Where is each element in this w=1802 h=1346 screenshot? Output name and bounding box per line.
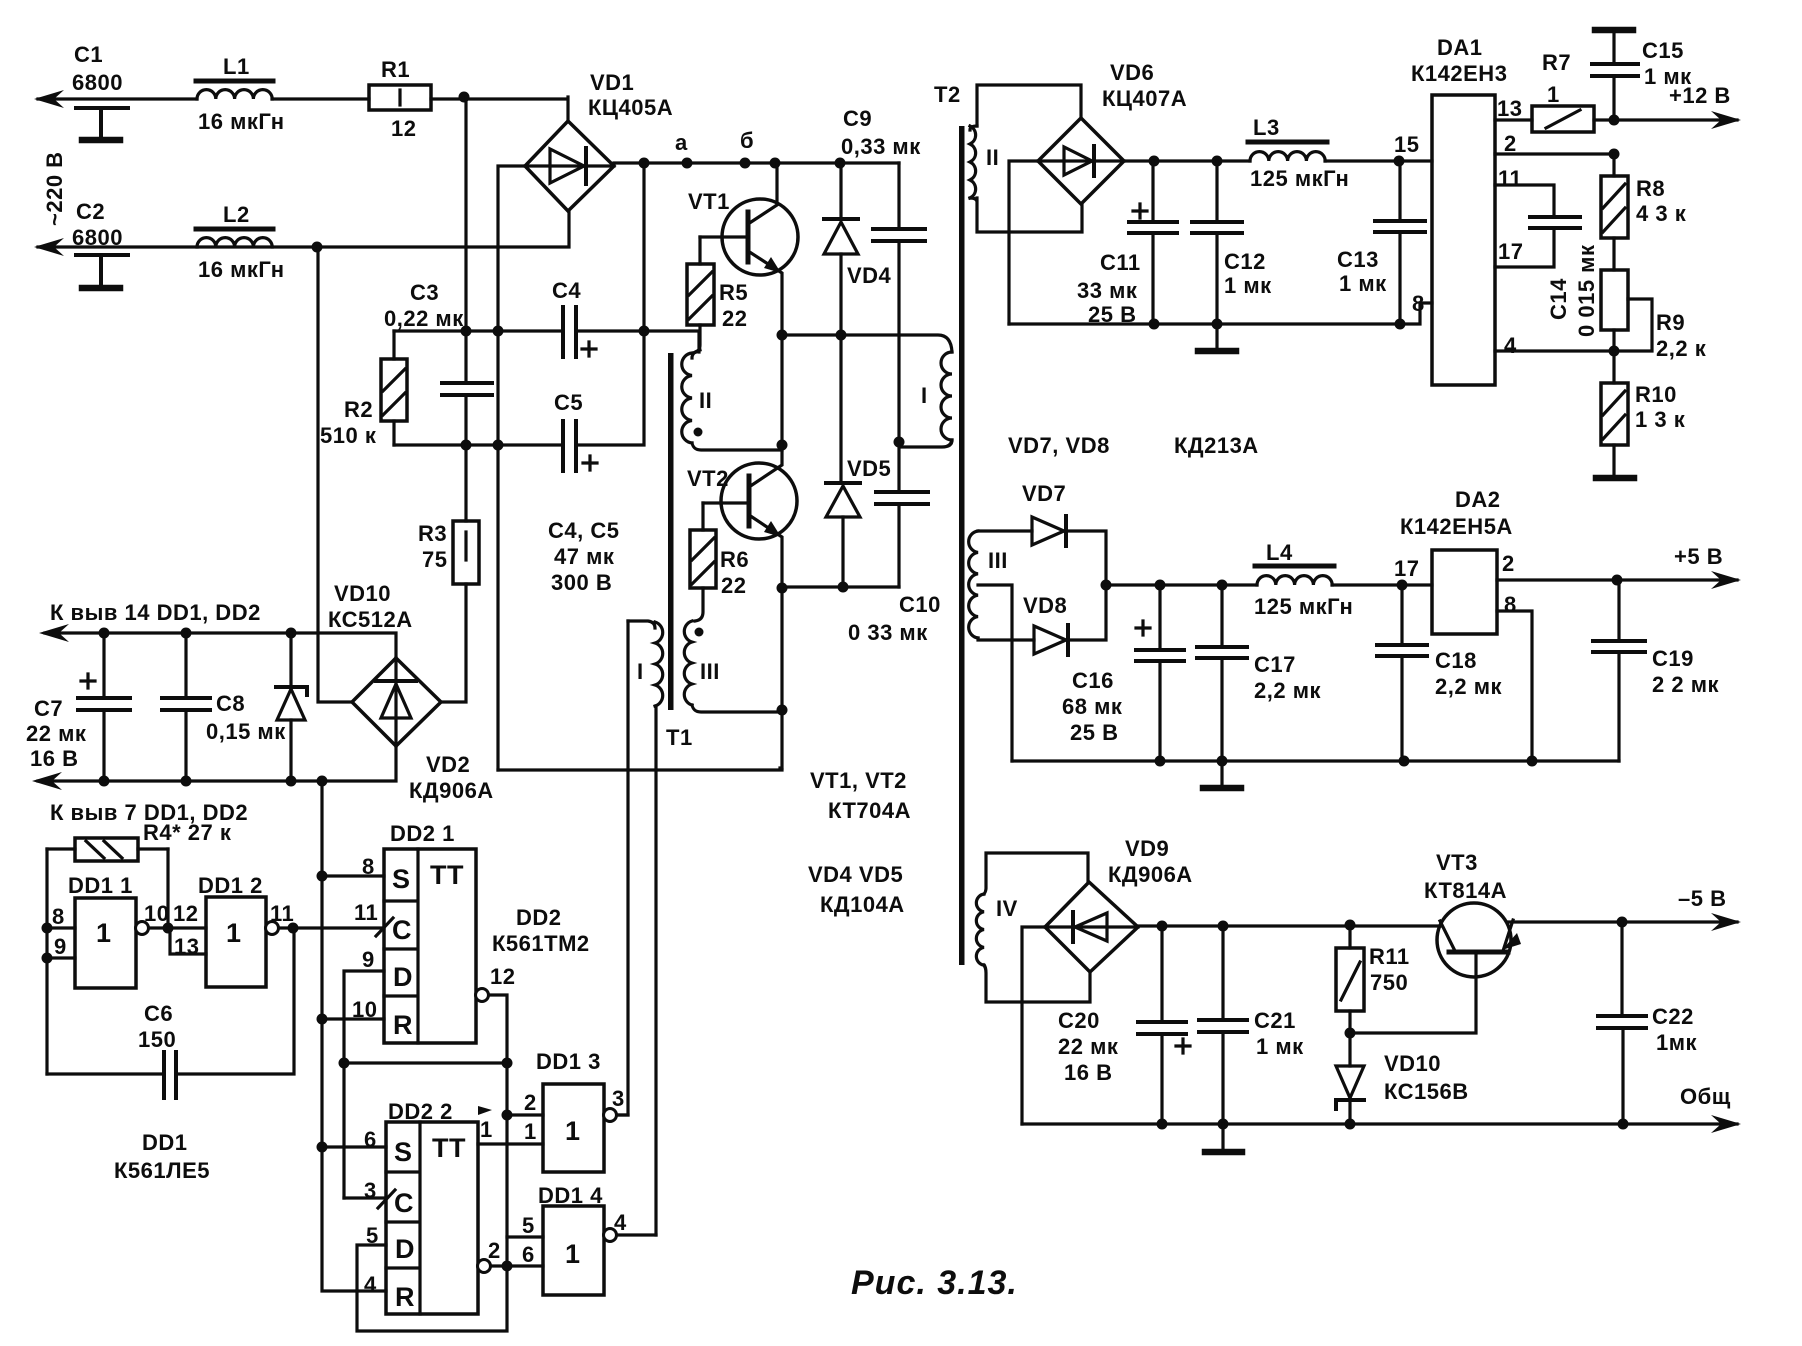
capacitor C9 [897,163,900,442]
svg-text:DD1 2: DD1 2 [198,873,263,898]
resistor R2 [320,331,407,448]
svg-text:L2: L2 [223,202,250,227]
svg-text:2: 2 [524,1090,537,1115]
svg-text:R5: R5 [719,280,748,305]
wire: DD2.2 pin1 output [478,1142,543,1145]
svg-text:22: 22 [722,306,747,331]
wire: pin2 [1495,152,1614,155]
svg-text:~220 В: ~220 В [42,151,67,226]
svg-text:+5 В: +5 В [1674,544,1723,569]
svg-text:12: 12 [490,964,515,989]
capacitor C1 [72,42,128,140]
svg-text:VD2: VD2 [426,752,470,777]
svg-text:DA2: DA2 [1455,487,1501,512]
svg-text:TT: TT [432,1133,466,1163]
transformer T2 core [959,126,965,965]
svg-text:22 мк: 22 мк [26,721,87,746]
transformer T2 winding III [969,531,1008,638]
svg-text:VD5: VD5 [847,456,891,481]
node: VT1 collector branch [770,158,781,169]
wire: DA1 bottom rail y=324 [1009,303,1432,324]
capacitor C14 [1495,185,1599,337]
arrow: line 2 to ~220V [34,238,64,256]
svg-text:8: 8 [1504,592,1517,617]
svg-text:DD2: DD2 [516,905,562,930]
svg-text:К142ЕН5А: К142ЕН5А [1400,514,1513,539]
svg-text:6800: 6800 [72,70,123,95]
svg-text:1: 1 [524,1119,537,1144]
resistor R3 [418,445,479,702]
svg-text:1: 1 [480,1117,493,1142]
wire: DA2 pin8 to rail [1497,611,1532,761]
wire: common rail К выв 7 [38,746,396,781]
svg-text:III: III [988,548,1008,573]
svg-text:9: 9 [362,947,375,972]
node b [740,158,751,169]
node: T1-III bottom junction [777,705,788,716]
svg-text:1: 1 [565,1116,581,1146]
svg-text:2 2 мк: 2 2 мк [1652,672,1719,697]
resistor R7 [1495,50,1737,132]
svg-text:DA1: DA1 [1437,35,1483,60]
wire: +5V bottom rail y=761 [1012,759,1619,762]
wire: +5V raw rail y=585 [1106,583,1432,586]
svg-text:К выв 14 DD1, DD2: К выв 14 DD1, DD2 [50,600,261,625]
wire: VD2 left vertex to L2 [318,247,352,702]
svg-text:1 мк: 1 мк [1256,1034,1304,1059]
svg-text:C1: C1 [74,42,103,67]
inductor L2 [196,202,285,282]
svg-text:КЦ405А: КЦ405А [588,95,673,120]
svg-text:VD10: VD10 [334,581,391,606]
svg-text:VD9: VD9 [1125,836,1169,861]
svg-text:III: III [700,659,720,684]
svg-text:T2: T2 [934,82,961,107]
capacitor C12 [1192,161,1272,324]
svg-text:1: 1 [1547,82,1560,107]
svg-text:R3: R3 [418,521,447,546]
bridge rectifier VD9 [1045,836,1193,972]
zener VD10 (KC512A) [276,581,413,781]
capacitor C2 [72,199,128,288]
gate DD1.1 [47,873,169,988]
svg-text:R10: R10 [1635,382,1677,407]
svg-text:КТ704А: КТ704А [828,798,911,823]
svg-text:25 В: 25 В [1070,720,1118,745]
wire: T1-I top to DD1.3 output [617,621,628,1115]
svg-text:C5: C5 [554,390,583,415]
node: R1 output junction [459,92,470,103]
ground below C17 [1220,761,1223,786]
svg-text:L1: L1 [223,54,250,79]
node a [682,158,693,169]
svg-text:1 мк: 1 мк [1339,271,1387,296]
transistor VT3 [1350,850,1521,1033]
resistor R1 [369,57,431,141]
capacitor C20 [1058,926,1190,1124]
svg-text:0 33 мк: 0 33 мк [848,620,928,645]
svg-text:VD8: VD8 [1023,593,1067,618]
svg-text:C18: C18 [1435,648,1477,673]
capacitor C5 [554,390,597,471]
inductor L4 [1254,540,1353,619]
svg-text:11: 11 [270,901,294,926]
svg-text:47 мк: 47 мк [554,544,615,569]
arrow: line 1 to ~220V [34,90,64,108]
capacitor C7 [26,633,130,781]
svg-text:DD1 1: DD1 1 [68,873,133,898]
transformer T1 winding III [684,621,782,712]
svg-text:II: II [986,145,999,170]
svg-text:4 3 к: 4 3 к [1636,201,1687,226]
capacitor C10 [848,437,941,646]
wire: VD1 left vertex to minus bus [498,166,525,770]
svg-text:C14: C14 [1546,278,1571,320]
node: DD1.2 output junction [288,923,299,934]
svg-text:R: R [395,1282,415,1312]
node: R7 output [1609,115,1620,126]
svg-text:VD1: VD1 [590,70,634,95]
transformer T1 winding I [628,621,663,1235]
svg-text:I: I [637,659,644,684]
svg-text:DD2 1: DD2 1 [390,821,455,846]
svg-text:C19: C19 [1652,646,1694,671]
svg-text:R6: R6 [720,547,749,572]
output DD2.1 pin12 [476,989,489,1002]
svg-text:750: 750 [1370,970,1408,995]
svg-text:4: 4 [614,1210,627,1235]
svg-text:КЦ407А: КЦ407А [1102,86,1187,111]
svg-text:1: 1 [96,918,112,948]
wire: VD6 left vertex to common [1009,161,1038,324]
svg-text:TT: TT [430,860,464,890]
flip-flop DD2.1 [352,821,476,1043]
svg-text:13: 13 [1497,96,1522,121]
svg-text:C21: C21 [1254,1008,1296,1033]
svg-text:1 мк: 1 мк [1644,64,1692,89]
svg-text:0,33 мк: 0,33 мк [841,134,921,159]
svg-text:12: 12 [173,901,198,926]
wire: R4 right leg [166,849,169,928]
svg-text:C: C [392,915,412,945]
wire: +5V output pin2 [1497,578,1737,581]
wire: mains line 1 [38,97,568,121]
svg-text:DD1: DD1 [142,1130,188,1155]
svg-text:33 мк: 33 мк [1077,278,1138,303]
svg-text:C16: C16 [1072,668,1114,693]
svg-text:R11: R11 [1369,944,1410,969]
wire: DD2.1 S input [322,874,384,877]
transformer T2 winding IV [976,853,1090,1002]
wire: DD2.1 C input [293,926,384,929]
svg-text:17: 17 [1394,556,1419,581]
wire: DD2.2 D input loop [357,1245,507,1331]
svg-text:22 мк: 22 мк [1058,1034,1119,1059]
svg-text:VD10: VD10 [1384,1051,1441,1076]
wire: common rail y=1124 [1022,1122,1737,1125]
wire: C5 rail y=445 [394,331,644,445]
svg-text:VD4: VD4 [847,263,892,288]
wire: VT2 emitter rail y=587 [782,585,899,588]
wire: C4 top rail y=331 [394,331,699,352]
wire: bottom return bus y=770 [498,768,782,771]
svg-text:К142ЕН3: К142ЕН3 [1411,61,1507,86]
svg-text:17: 17 [1498,239,1523,264]
node junctions on C4 rail [461,326,472,337]
svg-text:R9: R9 [1656,310,1685,335]
svg-text:300 В: 300 В [551,570,612,595]
wire: DD2.2 C input [344,1196,386,1199]
wire: +supply rail К выв 14 [45,633,396,658]
gate DD1.3 [507,1049,628,1172]
svg-text:VT2: VT2 [687,466,729,491]
svg-text:C: C [394,1188,414,1218]
svg-text:К561ЛЕ5: К561ЛЕ5 [114,1158,210,1183]
ground below C21 [1221,1124,1224,1150]
wire: VD9 left vertex to common [1022,927,1045,1124]
resistor R4 [47,820,232,861]
svg-text:C22: C22 [1652,1004,1694,1029]
wire: DD1.1 input bus [45,849,48,1074]
IC DA2 [1400,487,1517,634]
svg-text:DD1 4: DD1 4 [538,1183,603,1208]
svg-text:II: II [699,388,712,413]
svg-text:2: 2 [488,1238,501,1263]
resistor R10 [1601,351,1686,445]
svg-text:DD1 3: DD1 3 [536,1049,601,1074]
wire: Q12 feedback [344,1061,507,1064]
wire: mains line 2 [38,211,569,247]
node: C9 branch [835,158,846,169]
bridge rectifier VD1 [525,70,673,211]
svg-text:8: 8 [1412,291,1425,316]
capacitor C13 [1337,161,1425,324]
svg-text:C17: C17 [1254,652,1296,677]
transformer T1 winding II [682,350,782,450]
svg-text:2: 2 [1502,551,1515,576]
svg-text:11: 11 [1498,166,1522,191]
svg-text:1 3 к: 1 3 к [1635,407,1686,432]
svg-text:КТ814А: КТ814А [1424,878,1507,903]
svg-text:9: 9 [54,934,67,959]
svg-text:VT3: VT3 [1436,850,1478,875]
svg-text:VD7: VD7 [1022,481,1066,506]
svg-text:4: 4 [364,1272,377,1297]
gate DD1.4 [507,1183,656,1295]
svg-text:VD4 VD5: VD4 VD5 [808,862,903,887]
capacitor C11 [1077,161,1177,327]
svg-text:C15: C15 [1642,38,1684,63]
svg-text:2: 2 [1504,131,1517,156]
svg-text:а: а [675,130,688,155]
svg-text:D: D [395,1234,415,1264]
svg-text:КД213А: КД213А [1174,433,1259,458]
svg-text:C20: C20 [1058,1008,1100,1033]
svg-text:–5 В: –5 В [1678,886,1726,911]
wire: -5V rail y=924 [1138,922,1737,926]
svg-text:11: 11 [354,900,378,925]
svg-text:КС512А: КС512А [328,607,413,632]
svg-text:12: 12 [391,116,416,141]
capacitor C22 [1598,922,1698,1124]
svg-text:1: 1 [565,1239,581,1269]
svg-text:C4, C5: C4, C5 [548,518,619,543]
inductor L3 [1248,115,1349,191]
svg-text:6: 6 [522,1242,535,1267]
svg-text:150: 150 [138,1027,176,1052]
svg-text:C11: C11 [1100,250,1141,275]
svg-text:КД104А: КД104А [820,892,905,917]
svg-text:КД906А: КД906А [1108,862,1193,887]
svg-text:КС156В: КС156В [1384,1079,1469,1104]
svg-text:C12: C12 [1224,249,1266,274]
resistor R9 [1601,238,1707,361]
svg-text:3: 3 [612,1086,625,1111]
svg-text:2,2 мк: 2,2 мк [1435,674,1502,699]
svg-text:0,22 мк: 0,22 мк [384,306,464,331]
svg-text:C9: C9 [843,106,872,131]
diode VD7 [978,481,1106,585]
svg-text:C7: C7 [34,696,63,721]
svg-text:L4: L4 [1266,540,1293,565]
svg-text:0,15 мк: 0,15 мк [206,719,286,744]
capacitor C3 [384,97,492,445]
capacitor C6 [47,928,294,1098]
svg-text:R4* 27 к: R4* 27 к [143,820,232,845]
svg-text:VT1, VT2: VT1, VT2 [810,768,907,793]
capacitor C4 [552,278,596,357]
svg-text:C8: C8 [216,691,245,716]
capacitor C19 [1593,580,1719,761]
svg-text:1мк: 1мк [1656,1030,1698,1055]
svg-text:T1: T1 [666,725,693,750]
svg-text:16 В: 16 В [1064,1060,1112,1085]
resistor R5 [687,237,748,353]
resistor R6 [690,503,749,621]
wire: common drop to logic [320,781,323,1147]
node: R11/VT3 base junction [1345,1028,1356,1039]
node: VT1 emitter / VT2 collector junction [777,440,788,451]
svg-text:C6: C6 [144,1001,173,1026]
svg-text:1 мк: 1 мк [1224,273,1272,298]
transformer T2 winding I [901,352,952,447]
resistor R8 [1601,154,1687,238]
svg-text:16 мкГн: 16 мкГн [198,257,285,282]
svg-text:68 мк: 68 мк [1062,694,1123,719]
node junctions on C5 rail [461,440,472,451]
ground below C12 [1215,324,1218,348]
svg-text:КД906А: КД906А [409,778,494,803]
zener VD10 (KC156B) [1336,1033,1469,1124]
svg-text:15: 15 [1394,132,1419,157]
svg-text:R: R [393,1010,413,1040]
node: VD1 output junction [639,158,650,169]
wire: T2-III centre tap [978,585,1012,761]
svg-text:VD7, VD8: VD7, VD8 [1008,433,1110,458]
wire: pin4 [1495,349,1614,352]
capacitor C16 [1062,585,1184,761]
svg-text:125 мкГн: 125 мкГн [1250,166,1349,191]
svg-text:VD6: VD6 [1110,60,1154,85]
transformer T1 core [668,353,674,710]
svg-text:C13: C13 [1337,247,1379,272]
svg-text:16 В: 16 В [30,746,78,771]
ground below R10 [1612,445,1615,476]
wire: DD2.1 R input [322,1017,384,1020]
wire: emitter rail y=335 [782,335,952,352]
svg-text:8: 8 [52,904,65,929]
wire: x=782 bus [780,335,782,768]
bridge rectifier VD6 [1038,60,1187,204]
capacitor C15 [1592,30,1692,120]
svg-text:I: I [921,383,928,408]
arrow +12V [1711,111,1741,129]
capacitor C17 [1197,585,1321,761]
gate DD1.2 [168,873,294,987]
svg-text:VT1: VT1 [688,189,730,214]
wire: VD1 right vertex node a-b line [614,161,899,164]
wire: VD1 plus drop to C4 [642,163,645,331]
IC DA1 [1411,35,1523,385]
svg-text:S: S [394,1137,413,1167]
inductor L1 [196,54,285,134]
svg-text:5: 5 [522,1213,535,1238]
svg-text:2,2 мк: 2,2 мк [1254,678,1321,703]
svg-text:C4: C4 [552,278,581,303]
svg-text:R7: R7 [1542,50,1571,75]
transformer T2 winding II [970,85,1082,232]
svg-text:R2: R2 [344,397,373,422]
svg-text:L3: L3 [1253,115,1280,140]
svg-text:125 мкГн: 125 мкГн [1254,594,1353,619]
bridge rectifier VD2 [352,658,494,803]
svg-text:0 015 мк: 0 015 мк [1574,244,1599,337]
svg-text:IV: IV [996,896,1018,921]
svg-text:DD2 2: DD2 2 [388,1099,453,1124]
wire: +12V raw rail y=161 [1124,159,1432,162]
node: D-Q feedback junction [339,1058,350,1069]
svg-text:К561ТМ2: К561ТМ2 [492,931,590,956]
svg-text:13: 13 [174,934,199,959]
svg-text:10: 10 [144,901,169,926]
capacitor C18 [1377,585,1502,761]
node: VD7/VD8 cathode junction [1101,580,1112,591]
svg-text:510 к: 510 к [320,423,377,448]
svg-text:22: 22 [721,573,746,598]
wire: S/R tie [322,1147,386,1291]
node: L2 junction [312,242,323,253]
svg-text:75: 75 [422,547,447,572]
svg-text:S: S [392,864,411,894]
svg-text:C3: C3 [410,280,439,305]
svg-text:C2: C2 [76,199,105,224]
transistor VT2 [687,445,797,588]
output DD2.2 pin2 [478,1260,491,1273]
diode VD5 [826,335,891,587]
diode VD4 [824,163,892,335]
svg-text:б: б [740,128,754,153]
svg-text:Рис. 3.13.: Рис. 3.13. [851,1264,1018,1302]
flip-flop DD2.2 [364,1099,492,1314]
resistor R11 [1336,926,1410,1033]
svg-text:16 мкГн: 16 мкГн [198,109,285,134]
capacitor C8 [162,633,286,781]
svg-text:D: D [393,962,413,992]
wire: DD2.1 D input [344,971,384,1198]
wire: DD2.2 S input [322,1145,386,1148]
svg-text:1: 1 [226,918,242,948]
svg-text:Общ: Общ [1680,1084,1731,1109]
